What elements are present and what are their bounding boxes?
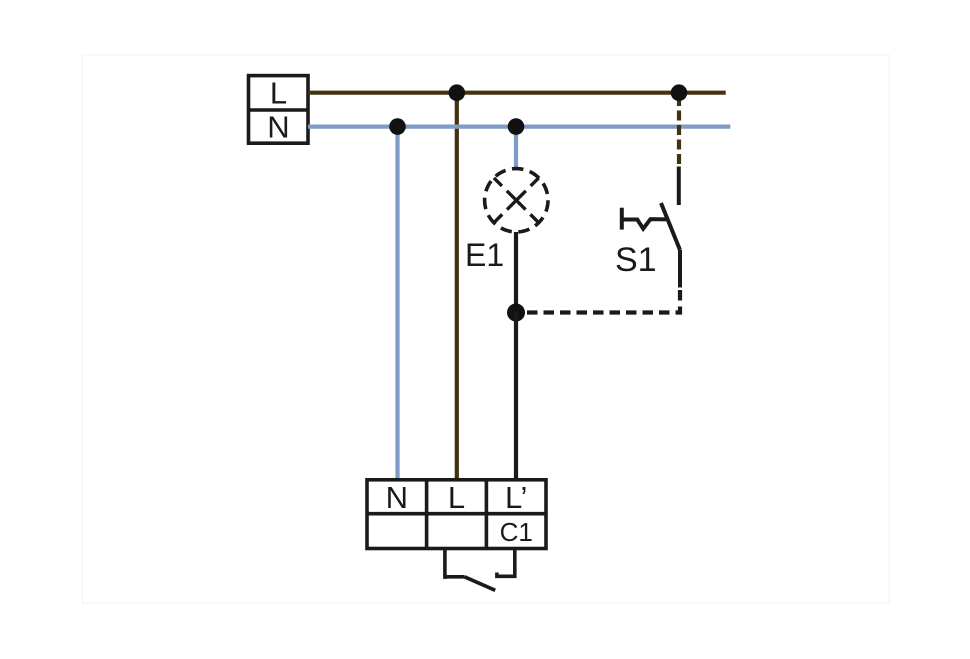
wire L brown horizontal: [308, 91, 726, 95]
S1 actuator tick: [620, 208, 624, 230]
node on L wire (junction to switch S1): [671, 84, 688, 101]
contact pivot bar: [445, 575, 465, 579]
svg-text:C1: C1: [500, 517, 533, 547]
node on N wire (junction to terminal N): [389, 118, 406, 135]
svg-text:S1: S1: [615, 241, 657, 279]
wire N blue vertical to lamp E1: [514, 127, 518, 170]
lamp E1 cross: [494, 178, 539, 223]
node lamp to L' junction: [507, 304, 525, 322]
wire dashed switch S1 to node (L' feed): [526, 290, 680, 313]
wire lamp E1 to node: [514, 232, 518, 313]
svg-text:L: L: [270, 76, 287, 111]
contact blade: [465, 577, 496, 591]
svg-text:L: L: [448, 480, 465, 515]
svg-text:E1: E1: [465, 237, 504, 273]
supply terminal box L/N: [249, 76, 309, 144]
lamp E1 circle: [485, 169, 548, 232]
wire N blue vertical to terminal N: [395, 127, 399, 480]
svg-text:L’: L’: [505, 480, 527, 515]
terminal block N L L' / C1: [367, 480, 546, 549]
S1 actuator linkage with spring: [622, 219, 666, 229]
contact right lead: [497, 549, 515, 577]
S1 upper terminal: [677, 167, 681, 206]
wire node to terminal L': [514, 313, 518, 481]
wire dashed brown to switch S1: [677, 96, 681, 164]
S1 lower terminal: [678, 250, 682, 288]
wire L brown vertical to terminal L: [455, 93, 459, 480]
page area faint border: [83, 55, 890, 603]
internal contact symbol below block: [445, 549, 515, 591]
svg-text:N: N: [267, 110, 289, 145]
S1 blade: [661, 203, 680, 250]
wire N blue horizontal: [308, 124, 730, 128]
switch S1: [622, 167, 680, 288]
contact left lead: [443, 549, 447, 579]
node on N wire (junction to lamp E1): [508, 118, 525, 135]
node on L wire (junction to terminal L): [449, 84, 466, 101]
svg-text:N: N: [386, 480, 408, 515]
